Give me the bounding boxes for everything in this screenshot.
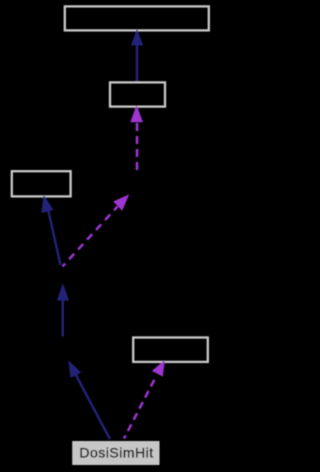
svg-text:DosiSimHit: DosiSimHit — [79, 445, 153, 461]
